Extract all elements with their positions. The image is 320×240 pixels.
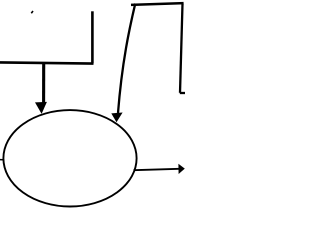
wire: top-right box top edge	[131, 3, 184, 5]
arrowhead (vertical arrow)	[35, 102, 47, 114]
tick mark (stray apostrophe top-left)	[31, 11, 33, 13]
wire: top-right box right edge	[180, 4, 183, 93]
tick mark (small dash on ellipse left)	[0, 159, 3, 161]
arrowhead (right arrow)	[178, 164, 184, 174]
arrow shaft (slanted, from top-right box to ellipse)	[118, 4, 135, 114]
ellipse (state node)	[3, 110, 136, 206]
wire: top-left box bottom edge	[0, 62, 94, 63]
arrow shaft (vertical, from top-left box to ellipse)	[42, 64, 45, 104]
wire: top-left box right edge	[91, 11, 94, 63]
arrowhead (slanted arrow)	[111, 113, 122, 123]
wire: top-right box bottom edge (partial, runs off right)	[180, 92, 185, 94]
arrow shaft (horizontal, out of ellipse to right)	[134, 169, 180, 170]
